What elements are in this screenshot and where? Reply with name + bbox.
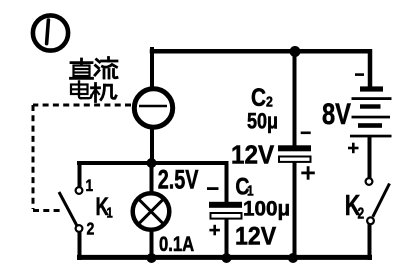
- svg-text:8V: 8V: [322, 97, 351, 130]
- svg-text:100μ: 100μ: [243, 197, 290, 220]
- svg-text:2: 2: [358, 204, 365, 222]
- svg-text:12V: 12V: [231, 141, 274, 170]
- svg-text:1: 1: [86, 177, 94, 196]
- svg-text:0.1A: 0.1A: [159, 233, 194, 256]
- svg-text:2: 2: [87, 220, 95, 239]
- svg-text:C: C: [251, 83, 266, 111]
- svg-text:12V: 12V: [235, 223, 277, 251]
- svg-text:2.5V: 2.5V: [158, 165, 199, 195]
- svg-text:2: 2: [266, 93, 273, 109]
- svg-text:50μ: 50μ: [247, 110, 278, 134]
- svg-text:1: 1: [107, 204, 113, 221]
